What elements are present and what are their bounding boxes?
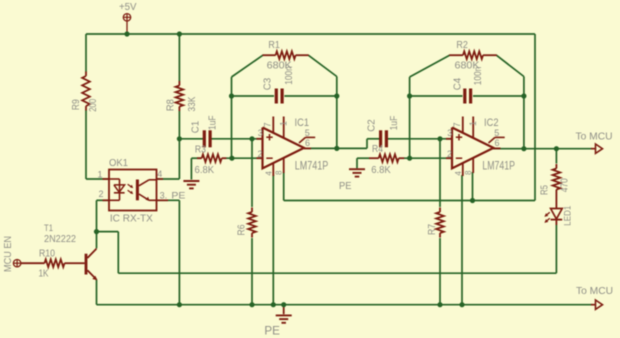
svg-text:100n: 100n bbox=[284, 66, 295, 85]
svg-text:6.8K: 6.8K bbox=[371, 165, 391, 176]
pin 2 label OK1 bbox=[98, 189, 103, 199]
wire IC2 pin 4 column to ground rail bbox=[461, 175, 463, 305]
svg-text:T1: T1 bbox=[44, 223, 53, 234]
junction PE symbol ground rail bbox=[281, 302, 286, 307]
junction C3 left bbox=[229, 93, 234, 98]
pin 1 label OK1 bbox=[97, 170, 102, 180]
capacitor C3 bbox=[262, 66, 295, 103]
wire R5 top bbox=[555, 149, 557, 164]
svg-text:OK1: OK1 bbox=[109, 158, 128, 169]
pin 1 label IC2 bbox=[468, 121, 478, 126]
pin 6 label IC1 bbox=[305, 138, 310, 148]
wire C4 right bbox=[473, 95, 524, 97]
svg-text:1K: 1K bbox=[39, 269, 49, 280]
wire R4 ground stub bbox=[357, 158, 369, 168]
svg-text:To MCU: To MCU bbox=[576, 285, 613, 297]
svg-text:R5: R5 bbox=[540, 185, 551, 195]
svg-text:R9: R9 bbox=[71, 99, 82, 110]
junction C1 R8 node bbox=[177, 136, 182, 141]
junction C4 left bbox=[407, 93, 412, 98]
wire C1 left bbox=[179, 138, 203, 140]
junction IC1 pin2 node bbox=[229, 156, 234, 161]
svg-text:5: 5 bbox=[305, 128, 310, 138]
wire bottom ground rail bbox=[97, 304, 593, 306]
svg-text:LED1: LED1 bbox=[563, 206, 573, 226]
wire R9 column upper bbox=[85, 34, 87, 72]
svg-text:2N2222: 2N2222 bbox=[44, 234, 76, 245]
svg-text:To MCU: To MCU bbox=[576, 130, 613, 142]
svg-text:IC RX-TX: IC RX-TX bbox=[110, 213, 153, 224]
wire R1 left diagonal bbox=[232, 55, 263, 77]
resistor R6 bbox=[237, 208, 256, 238]
svg-text:470: 470 bbox=[560, 178, 571, 192]
svg-text:4: 4 bbox=[454, 171, 463, 176]
wire C1 node down to OK1 pin 4 bbox=[157, 139, 180, 179]
wire T1 emitter down bbox=[96, 280, 98, 305]
svg-text:1: 1 bbox=[468, 121, 478, 126]
junction T1 collector node bbox=[94, 229, 99, 234]
wire R1 right diagonal bbox=[308, 55, 337, 76]
pin 7 label IC1 bbox=[262, 122, 272, 127]
resistor R1 bbox=[263, 40, 309, 72]
svg-text:3: 3 bbox=[447, 128, 452, 138]
svg-text:1uF: 1uF bbox=[389, 116, 400, 131]
resistor R2 bbox=[449, 40, 497, 72]
junction +5V tap bbox=[124, 31, 129, 36]
transistor T1 2N2222 bbox=[44, 223, 97, 280]
wire R7 column upper bbox=[439, 139, 441, 207]
wire C4 left bbox=[410, 95, 463, 97]
capacitor C1 bbox=[191, 115, 219, 147]
junction IC2 pin3 node bbox=[437, 136, 442, 141]
LED LED1 bbox=[544, 194, 572, 226]
capacitor C4 bbox=[453, 67, 485, 104]
svg-text:8: 8 bbox=[275, 170, 284, 175]
wire R2 C4 loop right vertical bbox=[523, 77, 525, 149]
wire R8 top bbox=[178, 34, 180, 81]
svg-text:4: 4 bbox=[265, 171, 274, 176]
svg-text:3.: 3. bbox=[160, 190, 168, 200]
svg-text:C1: C1 bbox=[191, 120, 202, 133]
svg-text:8: 8 bbox=[464, 170, 473, 175]
wire R3 left to ground bbox=[191, 158, 201, 179]
wire IC2 pin 8 down to V+ line bbox=[472, 172, 474, 201]
svg-text:LM741P: LM741P bbox=[482, 158, 515, 172]
terminal MCU_EN bbox=[3, 236, 21, 272]
pin 8 label IC1 bbox=[275, 170, 284, 175]
junction IC2 pin2 node bbox=[407, 156, 412, 161]
junction IC1 pin4 ground bbox=[271, 302, 276, 307]
wire V+ drop from top rail bbox=[534, 34, 536, 201]
pin 7 label IC2 bbox=[452, 122, 462, 127]
svg-text:100n: 100n bbox=[473, 67, 484, 86]
svg-text:6: 6 bbox=[494, 138, 499, 148]
pin 5 label IC2 bbox=[494, 128, 499, 138]
pin 6 label IC2 bbox=[494, 138, 499, 148]
svg-text:4: 4 bbox=[157, 169, 162, 179]
wire LED1 bottom bbox=[555, 225, 557, 273]
resistor R3 bbox=[195, 144, 227, 176]
wire C2 right to IC2 pin 3 bbox=[388, 138, 452, 140]
wire collector node down to T1 bbox=[96, 232, 98, 249]
wire IC1 output bbox=[304, 147, 337, 149]
wire R9 column lower to OK1 pin 1 bbox=[86, 110, 109, 179]
svg-text:C4: C4 bbox=[453, 77, 464, 90]
junction IC1 pin3 node bbox=[249, 136, 254, 141]
svg-text:3: 3 bbox=[258, 128, 263, 138]
resistor R4 bbox=[369, 144, 404, 176]
junction C3 right bbox=[334, 93, 339, 98]
pin 1 label IC1 bbox=[278, 121, 288, 126]
svg-text:R2: R2 bbox=[456, 40, 468, 51]
wire R2 left diagonal bbox=[410, 55, 450, 77]
ground PE at bottom rail bbox=[264, 305, 291, 338]
svg-text:R7: R7 bbox=[427, 224, 438, 235]
svg-text:MCU EN: MCU EN bbox=[3, 236, 14, 272]
op-amp IC2 bbox=[446, 117, 515, 177]
svg-text:R6: R6 bbox=[237, 224, 248, 235]
svg-text:1: 1 bbox=[278, 121, 288, 126]
pin 4 label IC1 bbox=[265, 171, 274, 176]
svg-text:2: 2 bbox=[447, 149, 452, 159]
resistor R10 bbox=[21, 249, 70, 280]
wire R1 C3 loop left vertical bbox=[231, 77, 233, 158]
svg-text:1: 1 bbox=[97, 170, 102, 180]
pin 8 label IC2 bbox=[464, 170, 473, 175]
junction OK1 pin3 ground bbox=[177, 302, 182, 307]
wire R3 output to IC1 pin 2 bbox=[226, 157, 263, 159]
svg-text:LM741P: LM741P bbox=[295, 158, 329, 172]
ground PE at R4 bbox=[339, 169, 365, 192]
ground PE at R3 bbox=[183, 181, 199, 188]
junction C4 right bbox=[521, 93, 526, 98]
svg-text:PE: PE bbox=[339, 180, 352, 192]
port To MCU top bbox=[576, 130, 613, 153]
wire collector rail horizontal bbox=[118, 272, 556, 274]
svg-text:6: 6 bbox=[305, 138, 310, 148]
wire C3 right bbox=[284, 95, 336, 97]
junction IC2 pin4 ground bbox=[459, 302, 464, 307]
pin 3 label IC2 bbox=[447, 128, 452, 138]
junction R7 ground bbox=[437, 302, 442, 307]
svg-text:+5V: +5V bbox=[119, 2, 137, 13]
resistor R5 bbox=[540, 164, 571, 195]
wire C3 left bbox=[232, 95, 275, 97]
svg-text:R10: R10 bbox=[39, 249, 55, 260]
svg-text:C3: C3 bbox=[262, 77, 273, 90]
wire collector rail left riser bbox=[97, 232, 119, 274]
wire IC1 output to C2 jog bbox=[337, 139, 379, 149]
resistor R8 bbox=[166, 81, 198, 112]
svg-text:33K: 33K bbox=[187, 96, 198, 111]
wire R1 C3 loop right vertical bbox=[336, 77, 338, 149]
pin 4 label OK1 bbox=[157, 169, 162, 179]
resistor R9 bbox=[71, 72, 99, 112]
svg-text:5: 5 bbox=[494, 128, 499, 138]
svg-text:6.8K: 6.8K bbox=[195, 165, 215, 176]
wire R8 bottom to C1 node bbox=[178, 111, 180, 139]
pin 3 label OK1 bbox=[160, 190, 168, 200]
pin 3 label IC1 bbox=[258, 128, 263, 138]
svg-text:PE: PE bbox=[171, 191, 185, 202]
wire R2 C4 loop left vertical bbox=[409, 77, 411, 158]
junction R5 tap bbox=[554, 146, 559, 151]
junction R6 ground bbox=[249, 302, 254, 307]
port To MCU bottom bbox=[576, 285, 613, 309]
svg-text:R8: R8 bbox=[166, 99, 177, 111]
pin 2 label IC2 bbox=[447, 149, 452, 159]
wire R4 right to IC2 pin 2 bbox=[404, 157, 452, 159]
svg-text:C2: C2 bbox=[367, 119, 378, 132]
op-amp IC1 bbox=[257, 117, 329, 177]
svg-text:R1: R1 bbox=[268, 40, 280, 51]
wire IC2 output to MCU bbox=[493, 148, 593, 150]
svg-text:7: 7 bbox=[452, 122, 462, 127]
wire R6 column upper bbox=[251, 139, 253, 207]
svg-text:2: 2 bbox=[98, 189, 103, 199]
svg-text:1uF: 1uF bbox=[208, 115, 219, 130]
power supply +5V bbox=[119, 2, 137, 34]
capacitor C2 bbox=[367, 116, 400, 148]
pin 2 label IC1 bbox=[257, 149, 262, 159]
wire V+ horizontal line bbox=[284, 200, 535, 202]
junction R8 top bbox=[177, 31, 182, 36]
wire OK1 pin 2 to collector node bbox=[97, 200, 110, 231]
svg-text:PE: PE bbox=[264, 325, 280, 337]
wire C1 right to IC1 pin 3 bbox=[212, 138, 263, 140]
pin 5 label IC1 bbox=[305, 128, 310, 138]
pin 4 label IC2 bbox=[454, 171, 463, 176]
net label PE at OK1 pin 3 bbox=[171, 191, 185, 202]
wire R7 column lower bbox=[439, 238, 441, 305]
svg-text:200: 200 bbox=[88, 98, 99, 111]
svg-text:7: 7 bbox=[262, 122, 272, 127]
junction IC2 output bbox=[521, 146, 526, 151]
svg-text:2: 2 bbox=[257, 149, 262, 159]
svg-text:R3: R3 bbox=[195, 144, 206, 155]
wire R2 right diagonal bbox=[496, 55, 524, 76]
resistor R7 bbox=[427, 208, 444, 238]
junction IC1 output bbox=[334, 146, 339, 151]
junction IC2 pin8 V+ line bbox=[470, 198, 475, 203]
wire R6 column lower bbox=[251, 238, 253, 305]
wire IC1 pin 8 to V+ line bbox=[283, 172, 285, 201]
wire OK1 pin 3 to ground rail bbox=[157, 200, 180, 304]
optocoupler OK1 bbox=[103, 158, 169, 224]
wire +5V top rail bbox=[86, 33, 535, 35]
svg-text:R4: R4 bbox=[372, 144, 383, 155]
wire IC1 pin 4 column to ground rail bbox=[272, 175, 274, 305]
